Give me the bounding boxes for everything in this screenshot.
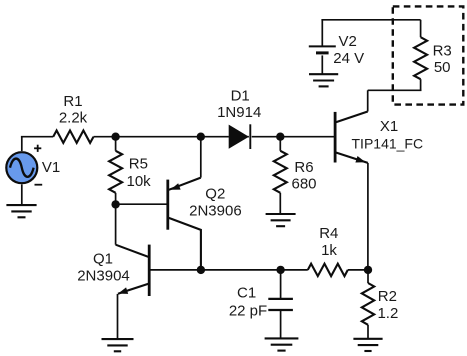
svg-text:Q1: Q1 <box>93 250 113 267</box>
svg-text:680: 680 <box>291 176 316 193</box>
svg-text:2N3906: 2N3906 <box>189 203 242 220</box>
svg-text:1k: 1k <box>321 242 337 259</box>
svg-text:22 pF: 22 pF <box>229 303 267 320</box>
svg-text:24 V: 24 V <box>333 50 364 67</box>
svg-text:R1: R1 <box>63 93 82 110</box>
svg-text:R4: R4 <box>319 225 338 242</box>
svg-text:V2: V2 <box>339 33 357 50</box>
svg-text:X1: X1 <box>380 118 398 135</box>
svg-text:V1: V1 <box>42 159 60 176</box>
svg-text:2N3904: 2N3904 <box>77 267 130 284</box>
svg-text:R6: R6 <box>294 159 313 176</box>
svg-text:50: 50 <box>434 59 451 76</box>
svg-text:Q2: Q2 <box>205 185 225 202</box>
svg-text:TIP141_FC: TIP141_FC <box>352 136 424 152</box>
svg-text:R5: R5 <box>129 155 148 172</box>
svg-text:2.2k: 2.2k <box>59 110 88 127</box>
svg-text:R2: R2 <box>378 288 397 305</box>
svg-text:1N914: 1N914 <box>217 104 261 121</box>
svg-text:D1: D1 <box>231 88 250 105</box>
svg-text:R3: R3 <box>433 42 452 59</box>
svg-text:1.2: 1.2 <box>377 305 398 322</box>
svg-text:10k: 10k <box>127 173 152 190</box>
svg-text:C1: C1 <box>237 285 256 302</box>
